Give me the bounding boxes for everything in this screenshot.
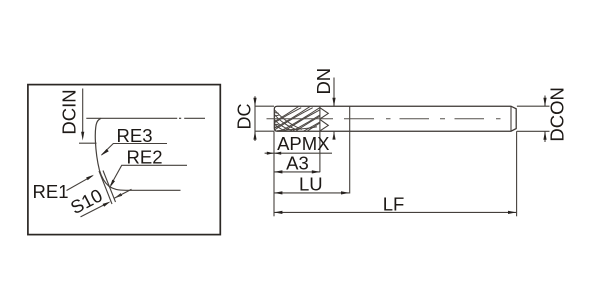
dimension LF (274, 211, 516, 213)
svg-text:RE1: RE1 (33, 181, 69, 202)
dimension APMX (265, 152, 332, 154)
svg-text:RE2: RE2 (127, 147, 163, 168)
RE2 leader (111, 165, 188, 185)
gash edge line B (103, 171, 116, 203)
tool outline (274, 106, 516, 131)
chamfer line (510, 106, 512, 131)
DCIN dimension line (82, 89, 84, 134)
flute tooth chevrons (320, 108, 328, 131)
centerline (267, 118, 501, 120)
detail top profile line (86, 117, 177, 119)
flute end line (319, 106, 321, 172)
svg-text:DN: DN (313, 68, 334, 95)
corner profile curve (95, 118, 180, 190)
dimension LU (274, 192, 349, 194)
svg-text:A3: A3 (286, 152, 309, 173)
DCIN reference tick (79, 142, 97, 144)
svg-text:LU: LU (299, 174, 323, 195)
flute hatching (254, 106, 347, 136)
gash edge line A (99, 171, 112, 204)
detail box frame (28, 85, 220, 235)
svg-text:DCON: DCON (546, 87, 567, 141)
extension line right (shank end) (516, 131, 518, 216)
dimension A3 (274, 171, 320, 173)
dimension DCON (517, 105, 550, 107)
svg-text:LF: LF (383, 193, 405, 214)
S10 dimension line (81, 205, 105, 217)
svg-text:APMX: APMX (277, 133, 329, 154)
RE3 leader (102, 144, 168, 156)
extension line left (tool tip) (273, 131, 275, 216)
svg-text:DCIN: DCIN (59, 89, 80, 134)
dimension DC (254, 96, 256, 141)
svg-text:DC: DC (235, 104, 255, 130)
dimension DN (333, 78, 335, 107)
neck end line / LU extension (349, 106, 351, 193)
svg-text:RE3: RE3 (117, 125, 153, 146)
RE1 leader (67, 176, 93, 191)
